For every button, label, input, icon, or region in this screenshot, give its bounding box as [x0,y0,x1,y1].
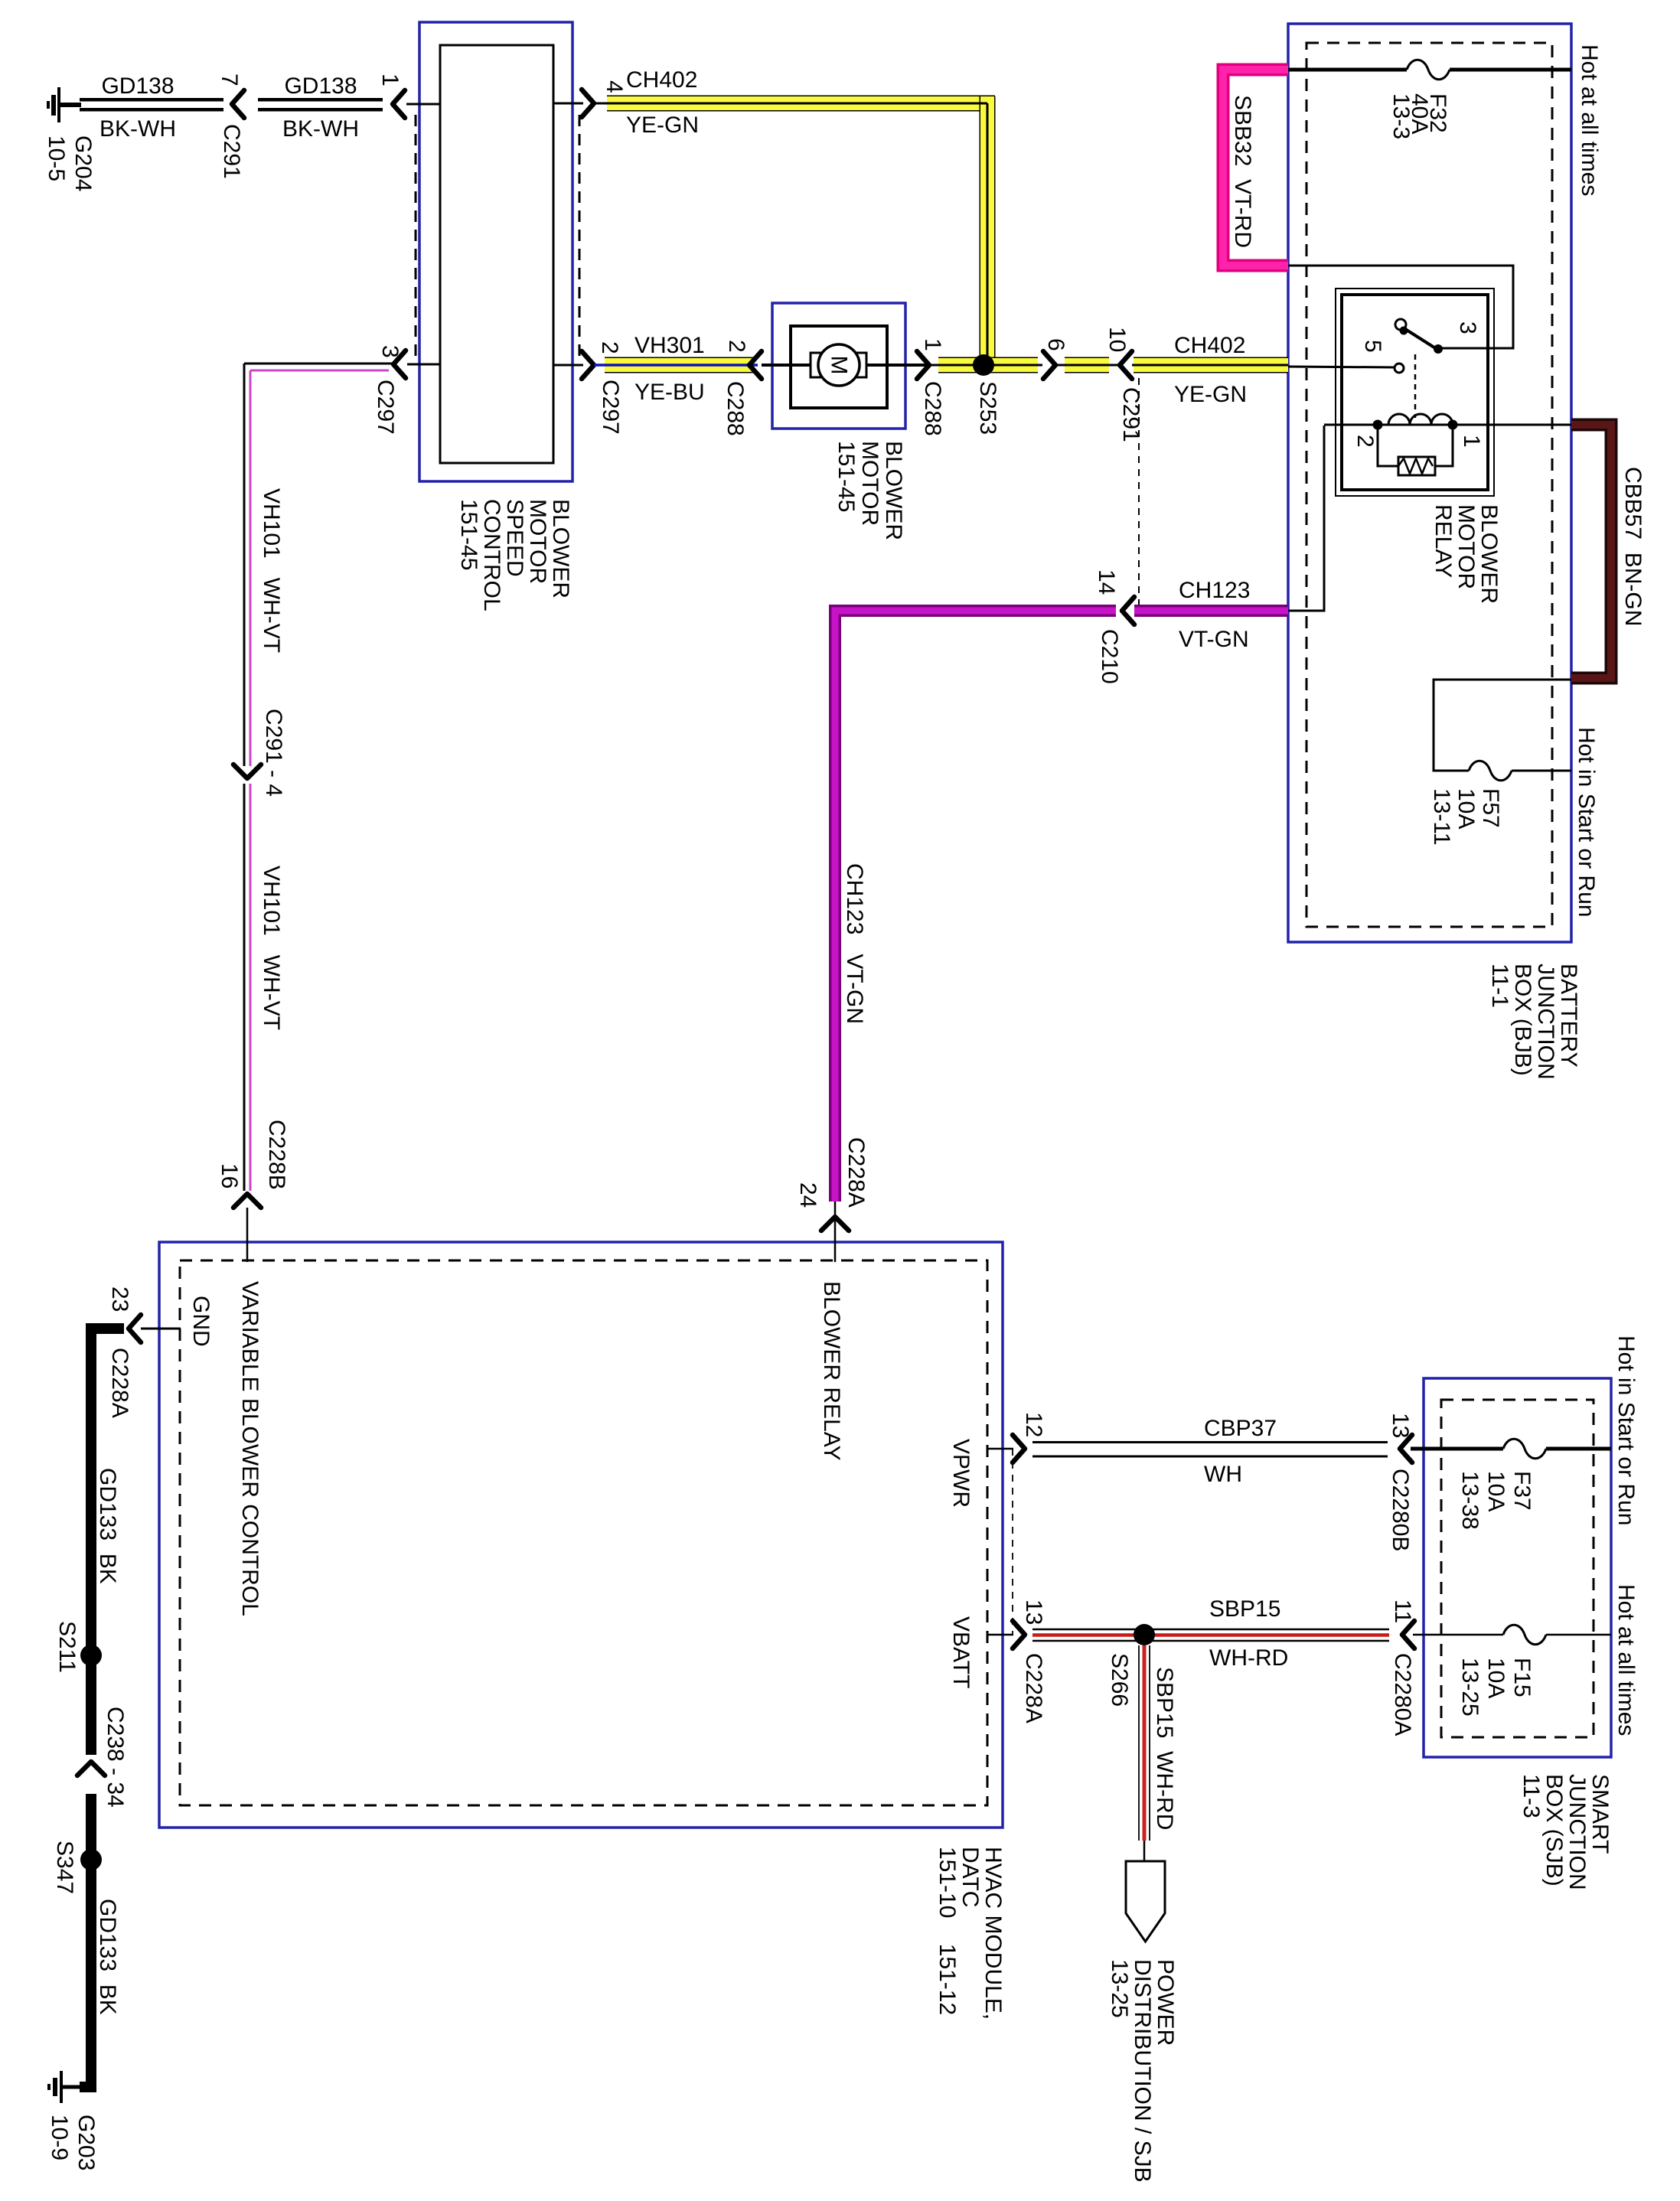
dashed connector line C228A pins 12/13 [1012,1449,1013,1635]
label BMSC [456,499,573,611]
svg-text:Hot in Start or Run: Hot in Start or Run [1574,727,1599,917]
label GD138 BK-WH segment 1 [99,73,176,142]
wire CH123 VT-GN horizontal [1134,605,1288,617]
wire CH123 inside BJB [1288,426,1324,611]
svg-text:SPEED: SPEED [502,499,527,577]
svg-text:11-3: 11-3 [1519,1774,1544,1818]
label CH123 VT-GN [1179,578,1250,652]
svg-text:G203: G203 [73,2115,99,2170]
svg-text:MOTOR: MOTOR [525,499,550,584]
svg-text:C291 - 4: C291 - 4 [261,709,286,797]
svg-text:BLOWER RELAY: BLOWER RELAY [819,1281,844,1461]
wire VH101 WH-VT vertical upper [244,364,250,766]
svg-text:14: 14 [1094,569,1119,595]
connector C291 arrow pin 7 [232,90,244,118]
svg-text:F57: F57 [1478,788,1503,828]
fuse F15 10A feed [1413,1625,1611,1645]
svg-text:DISTRIBUTION / SJB: DISTRIBUTION / SJB [1130,1959,1155,2183]
label fuse F37 [1457,1471,1535,1530]
svg-text:2: 2 [1352,435,1378,448]
wire pin1 stub into BMSC [406,103,441,106]
svg-text:HVAC MODULE,: HVAC MODULE, [980,1847,1006,2020]
svg-text:F15: F15 [1509,1658,1535,1697]
svg-text:4: 4 [602,80,627,93]
blower motor relay box [1336,289,1494,496]
svg-text:10A: 10A [1453,788,1479,829]
splice S266 [1134,1624,1155,1645]
label G204 10-5 [44,135,96,191]
svg-text:YE-BU: YE-BU [634,380,705,405]
wire CH402 YE-GN top run [594,96,996,373]
svg-text:CH402: CH402 [1174,333,1245,358]
connector C288 arrow pin 2 [749,351,762,379]
wire BMSC pin 3 (C297) [244,364,441,370]
fuse F37 10A feed [1411,1439,1611,1459]
svg-text:C238 - 34: C238 - 34 [103,1707,128,1808]
svg-text:CH402: CH402 [626,67,697,93]
connector arrow pin 12 [1013,1435,1025,1462]
label G203 10-9 [47,2115,99,2170]
wire VBATT pin 13 stub [987,1634,1013,1636]
svg-text:10A: 10A [1483,1471,1509,1511]
svg-text:C288: C288 [723,381,748,436]
svg-text:VPWR: VPWR [948,1439,974,1508]
svg-text:CONTROL: CONTROL [479,499,504,611]
svg-text:12: 12 [1021,1412,1046,1437]
svg-text:S253: S253 [975,381,1000,435]
svg-text:13-11: 13-11 [1429,788,1454,846]
splice S211 [80,1645,102,1666]
splice S347 [80,1849,102,1870]
HVAC module box [159,1242,1003,1828]
ground G204 [48,87,81,122]
smart junction box (SJB) [1424,1378,1611,1757]
connector C2280A arrow pin 11 [1402,1621,1414,1648]
svg-text:SBP15: SBP15 [1209,1596,1280,1622]
wire VPWR pin 12 stub [987,1448,1013,1450]
label HVAC module [935,1847,1006,2020]
svg-text:BATTERY: BATTERY [1556,964,1581,1068]
svg-text:VH301: VH301 [634,333,705,358]
svg-text:POWER: POWER [1153,1959,1178,2046]
svg-text:G204: G204 [70,135,96,191]
connector C291 arrow pin 6 [1043,351,1055,379]
svg-text:C297: C297 [373,380,398,435]
wire SBB32 VT-RD [1223,70,1288,266]
wire SBP15 WH-RD vertical [1139,1645,1150,1862]
svg-text:WH-RD: WH-RD [1209,1645,1288,1671]
svg-text:C291: C291 [1118,387,1143,442]
label CBP37 WH [1204,1416,1277,1487]
svg-text:24: 24 [795,1182,820,1208]
svg-text:S211: S211 [54,1621,80,1673]
wire through blower motor [762,364,929,367]
svg-text:DATC: DATC [957,1847,983,1907]
battery junction box (BJB) [1288,24,1571,942]
svg-text:3: 3 [377,345,403,358]
label blower motor relay [1430,504,1502,604]
connector arrow pin 2 [582,351,594,379]
connector C297 arrow pin 1 [393,90,405,118]
connector C210 arrow pin 14 [1122,597,1134,624]
svg-text:Hot at all times: Hot at all times [1577,44,1602,196]
connector arrow pin 4 [582,90,594,117]
wire pin 4 stub [553,103,583,105]
label blower motor [833,441,906,540]
svg-text:2: 2 [597,341,622,354]
label power distribution [1107,1959,1178,2183]
svg-text:CBB57 BN-GN: CBB57 BN-GN [1620,467,1646,626]
svg-text:3: 3 [1455,321,1480,334]
svg-text:JUNCTION: JUNCTION [1533,964,1558,1080]
svg-text:5: 5 [1360,340,1385,353]
svg-text:WH: WH [1204,1462,1242,1487]
svg-text:7: 7 [217,73,242,86]
svg-text:BLOWER: BLOWER [548,499,573,598]
wire GND pin 23 stub [141,1328,181,1330]
connector C238-34 inline arrow (up) [77,1762,105,1775]
svg-text:CBP37: CBP37 [1204,1416,1277,1441]
svg-text:151-45: 151-45 [833,441,859,512]
wire to fuse F57 [1434,680,1571,771]
label fuse F57 [1429,788,1503,846]
svg-text:1: 1 [377,73,403,86]
svg-text:11: 11 [1390,1599,1415,1623]
svg-text:C2280B: C2280B [1388,1469,1413,1551]
relay switch contact and arm [1395,319,1437,349]
label smart junction box [1519,1774,1613,1890]
blower motor M symbol [811,344,866,386]
power distribution symbol [1126,1861,1165,1942]
svg-text:C228A: C228A [107,1348,132,1418]
svg-text:Hot at all times: Hot at all times [1613,1584,1639,1736]
label VH301 YE-BU [634,333,705,405]
relay coil line pin2 to pin1 to CBB57 [1324,414,1571,430]
connector C2280B arrow pin 13 [1400,1435,1412,1462]
svg-text:151-10 151-12: 151-10 151-12 [935,1847,960,2015]
svg-text:BLOWER: BLOWER [881,441,906,540]
svg-text:VH101 WH-VT: VH101 WH-VT [259,488,284,653]
svg-text:BLOWER: BLOWER [1476,504,1502,604]
svg-text:BOX (BJB): BOX (BJB) [1510,964,1535,1076]
svg-text:YE-GN: YE-GN [1174,382,1247,407]
svg-text:VARIABLE BLOWER CONTROL: VARIABLE BLOWER CONTROL [237,1281,263,1616]
connector C228A arrow pin 23 [129,1315,141,1342]
svg-text:10: 10 [1104,327,1130,352]
svg-text:VBATT: VBATT [948,1616,974,1688]
wire CH402 YE-GN right run [1132,357,1288,373]
dashed connector line C297 left of BMSC [415,115,417,356]
label CH402 YE-GN right [1174,333,1247,407]
svg-text:C228A: C228A [843,1137,869,1208]
relay coil resistor [1378,425,1453,475]
svg-text:MOTOR: MOTOR [1453,504,1479,589]
svg-text:10-9: 10-9 [47,2115,72,2160]
relay actuator dashed line [1414,354,1417,418]
svg-text:C210: C210 [1097,629,1122,684]
relay pin 5 contact [1395,364,1404,373]
svg-text:13-3: 13-3 [1388,93,1414,139]
svg-text:13: 13 [1021,1599,1046,1625]
svg-text:C291: C291 [219,124,244,179]
svg-text:JUNCTION: JUNCTION [1564,1774,1590,1890]
svg-text:SBB32 VT-RD: SBB32 VT-RD [1230,95,1255,248]
connector arrow pin 13 [1013,1621,1025,1648]
label GD138 BK-WH segment 2 [282,73,359,142]
ground G203 [49,2071,61,2103]
svg-text:151-45: 151-45 [456,499,481,570]
svg-text:13-38: 13-38 [1457,1471,1483,1530]
svg-text:S266: S266 [1107,1653,1132,1707]
connector C288 arrow pin 1 [917,351,929,379]
svg-text:C297: C297 [598,380,623,435]
wire from SBB32 to relay pin 3 [1288,266,1513,354]
svg-text:GD133 BK: GD133 BK [95,1468,120,1584]
wire GD138 BK-WH segment 2 [258,98,383,112]
wire CBB57 BN-GN [1571,425,1611,678]
svg-text:CH123: CH123 [1179,578,1250,603]
connector C291 arrow pin 10 [1120,351,1132,379]
label SBP15 WH-RD horizontal [1209,1596,1288,1671]
wire pin 24 stub [834,1202,837,1262]
dashed connector line C291/C210 [1138,365,1140,611]
wire between C291 halves [1055,357,1119,373]
svg-text:GD133 BK: GD133 BK [95,1899,120,2015]
blower motor box [772,303,905,429]
svg-text:BK-WH: BK-WH [282,116,359,142]
svg-text:BOX (SJB): BOX (SJB) [1541,1774,1567,1886]
svg-text:Hot in Start or Run: Hot in Start or Run [1613,1335,1639,1525]
svg-text:BK-WH: BK-WH [99,116,176,142]
svg-text:6: 6 [1043,338,1068,351]
svg-text:2: 2 [724,340,749,353]
svg-text:11-1: 11-1 [1487,964,1512,1008]
svg-text:10A: 10A [1483,1658,1509,1698]
splice S253 [973,354,994,376]
svg-text:C228B: C228B [264,1120,289,1190]
svg-text:GD138: GD138 [284,73,357,99]
label battery junction box [1487,964,1581,1080]
HVAC dashed border [180,1260,987,1805]
svg-text:VT-GN: VT-GN [1179,627,1249,652]
wire VH101 WH-VT vertical lower [244,784,250,1191]
wire BMSC pin 2 stub [553,364,583,367]
svg-text:10-5: 10-5 [44,135,69,181]
svg-text:C288: C288 [920,381,945,436]
svg-text:C228A: C228A [1021,1653,1046,1723]
svg-text:C2280A: C2280A [1390,1653,1415,1736]
svg-text:1: 1 [920,338,945,351]
wire to relay pin 5 [1288,367,1395,367]
label CH402 YE-GN top [626,67,699,138]
svg-text:S347: S347 [52,1841,77,1894]
svg-text:GD138: GD138 [101,73,174,99]
svg-text:M: M [827,356,852,375]
svg-text:F37: F37 [1509,1471,1535,1511]
svg-text:13-25: 13-25 [1457,1658,1483,1717]
wire CH123 VT-GN to HVAC [835,611,1116,1202]
svg-text:SMART: SMART [1587,1774,1613,1854]
label fuse F32 [1388,93,1450,139]
svg-text:CH123 VT-GN: CH123 VT-GN [842,863,867,1024]
BJB dashed border [1306,43,1552,927]
svg-text:YE-GN: YE-GN [626,112,699,138]
wire CBP37 WH [1032,1443,1388,1457]
wire pin16 stub into HVAC box [246,1208,249,1262]
svg-text:MOTOR: MOTOR [857,441,882,526]
fuse F57 10A [1469,761,1512,781]
blower motor speed control box U1 [419,22,573,481]
svg-text:1: 1 [1459,435,1484,448]
svg-text:16: 16 [217,1163,242,1189]
fuse F32 40A [1288,60,1571,80]
svg-text:RELAY: RELAY [1430,504,1456,578]
wire VH301 YE-BU [594,357,758,373]
wire SBP15 WH-RD horizontal [1032,1629,1389,1641]
svg-text:13-25: 13-25 [1107,1959,1132,2018]
connector C291-4 inline arrow (down) [233,765,261,778]
svg-text:23: 23 [107,1286,132,1312]
wire YE-GN at splice [929,357,1042,373]
svg-text:SBP15 WH-RD: SBP15 WH-RD [1152,1667,1177,1830]
svg-text:VH101 WH-VT: VH101 WH-VT [259,866,284,1030]
SJB dashed border [1441,1400,1594,1737]
wire GD133 BK thick ground run [63,1323,124,2092]
wire GD138 BK-WH segment 1 [80,98,223,112]
connector C228B pin 16 arrow (up) [233,1194,261,1208]
svg-text:13: 13 [1388,1413,1413,1438]
label fuse F15 [1457,1658,1535,1717]
connector C228A arrow pin 24 (up) [821,1217,849,1231]
dashed connector line C297 right of BMSC [579,115,581,356]
svg-text:GND: GND [188,1296,214,1347]
connector C297 arrow pin 3 [393,351,406,378]
